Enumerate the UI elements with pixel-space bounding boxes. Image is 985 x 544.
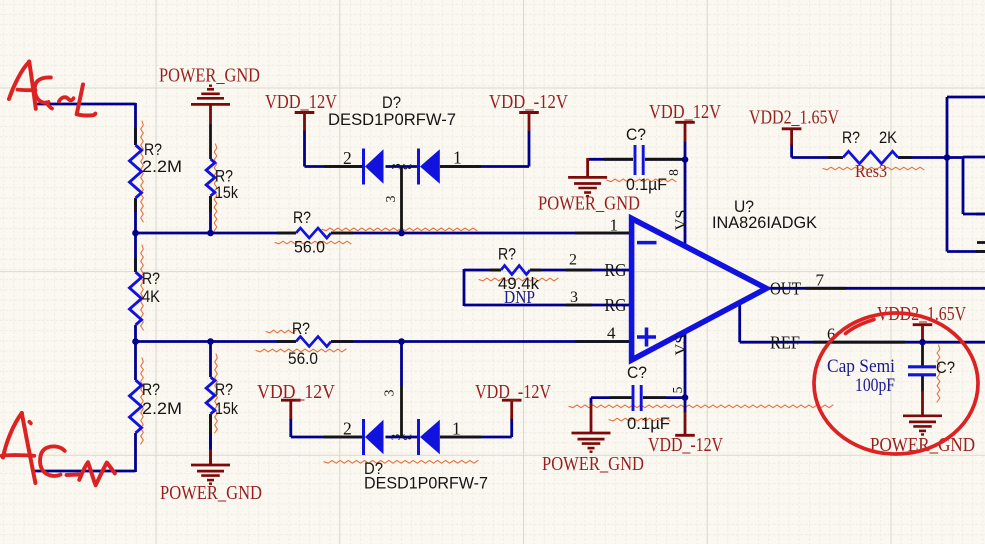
svg-text:R?: R? (142, 269, 160, 288)
svg-text:C?: C? (627, 363, 647, 382)
svg-text:DNP: DNP (504, 287, 535, 307)
svg-text:R?: R? (498, 245, 516, 264)
svg-text:REF: REF (770, 333, 800, 353)
svg-text:RG: RG (605, 295, 627, 315)
svg-text:2: 2 (343, 419, 352, 439)
svg-text:0.1µF: 0.1µF (627, 414, 670, 433)
svg-text:2: 2 (569, 252, 577, 269)
svg-text:3: 3 (400, 434, 415, 441)
svg-text:0.1µF: 0.1µF (626, 175, 667, 194)
svg-text:OUT: OUT (770, 278, 801, 298)
svg-text:VS: VS (673, 210, 690, 231)
svg-text:R?: R? (842, 128, 860, 147)
svg-text:R?: R? (293, 208, 311, 227)
svg-text:2: 2 (343, 148, 352, 168)
svg-text:POWER_GND: POWER_GND (160, 483, 262, 504)
svg-text:POWER_GND: POWER_GND (538, 194, 640, 215)
svg-text:3: 3 (570, 289, 578, 306)
svg-text:1: 1 (452, 419, 461, 439)
svg-text:VDD_-12V: VDD_-12V (648, 435, 723, 456)
svg-text:C?: C? (936, 358, 955, 377)
svg-text:RG: RG (605, 260, 627, 280)
svg-text:VDD_12V: VDD_12V (257, 382, 335, 403)
svg-text:8: 8 (666, 169, 681, 176)
svg-text:DESD1P0RFW-7: DESD1P0RFW-7 (364, 474, 488, 493)
svg-text:3: 3 (383, 195, 398, 202)
svg-text:DESD1P0RFW-7: DESD1P0RFW-7 (328, 110, 456, 129)
svg-text:4: 4 (607, 324, 616, 343)
svg-text:R?: R? (215, 380, 233, 399)
svg-text:100pF: 100pF (855, 375, 895, 396)
svg-text:5: 5 (670, 386, 685, 393)
svg-text:C?: C? (626, 125, 646, 144)
svg-text:POWER_GND: POWER_GND (542, 454, 644, 475)
svg-text:2.2M: 2.2M (142, 157, 182, 176)
svg-text:R?: R? (292, 319, 310, 338)
svg-text:15k: 15k (215, 399, 238, 418)
svg-text:Cap Semi: Cap Semi (827, 356, 895, 377)
svg-text:3: 3 (400, 163, 415, 170)
svg-text:1: 1 (610, 216, 619, 235)
svg-text:VDD_-12V: VDD_-12V (475, 382, 551, 403)
svg-text:4K: 4K (142, 287, 161, 306)
svg-text:VDD_12V: VDD_12V (265, 92, 337, 113)
svg-text:2.2M: 2.2M (142, 399, 182, 418)
svg-text:VDD_12V: VDD_12V (649, 102, 721, 123)
svg-text:Res3: Res3 (855, 161, 887, 181)
svg-text:R?: R? (142, 380, 160, 399)
svg-text:POWER_GND: POWER_GND (159, 66, 260, 87)
svg-text:2K: 2K (879, 128, 898, 147)
svg-text:VDD2_1.65V: VDD2_1.65V (749, 108, 839, 129)
svg-text:1: 1 (453, 148, 462, 168)
svg-text:15k: 15k (215, 183, 238, 202)
svg-text:56.0: 56.0 (294, 238, 325, 257)
svg-text:7: 7 (816, 271, 825, 290)
svg-text:VDD_-12V: VDD_-12V (489, 92, 568, 113)
svg-text:56.0: 56.0 (288, 349, 318, 368)
svg-text:INA826IADGK: INA826IADGK (712, 213, 818, 232)
svg-text:3: 3 (382, 389, 397, 396)
svg-text:VS: VS (673, 335, 690, 356)
